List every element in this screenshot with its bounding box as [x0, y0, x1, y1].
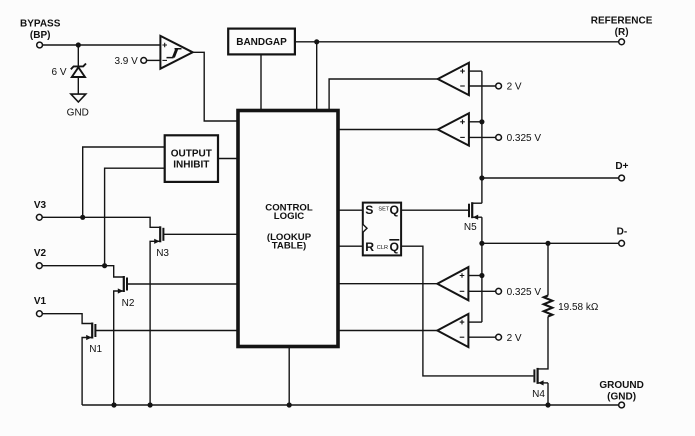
wire D+ line: [482, 177, 619, 179]
wire resistor to N4 drain: [538, 317, 548, 369]
wire junction to control logic top: [316, 42, 318, 111]
junction N2 source/bus: [111, 402, 116, 407]
transistor N3: [150, 226, 169, 405]
wire V1 to N1 drain: [42, 314, 92, 324]
svg-text:N4: N4: [532, 389, 545, 400]
op-amp U3 comparator 2V top: [438, 63, 469, 95]
wire U5 + input to rail: [468, 275, 482, 277]
svg-text:D+: D+: [615, 161, 628, 172]
wire U4 + input to rail: [469, 121, 482, 123]
transistor N2: [114, 276, 135, 405]
terminal 0.325 V top: [496, 133, 542, 144]
svg-text:GND: GND: [67, 107, 89, 118]
wire V3 node to output inhibit: [83, 147, 165, 217]
svg-text:6 V: 6 V: [51, 67, 66, 78]
transistor N5: [464, 202, 482, 233]
wire output inhibit to control logic: [218, 158, 238, 160]
terminal REFERENCE (R): [591, 16, 653, 45]
svg-text:19.58 kΩ: 19.58 kΩ: [558, 302, 599, 313]
svg-text:3.9 V: 3.9 V: [114, 56, 138, 67]
ground symbol GND: [67, 94, 89, 118]
junction control logic/bus: [287, 402, 292, 407]
wire D- to resistor R1: [547, 243, 549, 295]
svg-text:OUTPUT: OUTPUT: [171, 148, 212, 159]
op-amp U6 comparator 2V bottom: [437, 314, 468, 347]
junction node reference/control: [314, 39, 319, 44]
svg-text:2 V: 2 V: [507, 82, 522, 93]
wire N5 source to D-: [481, 217, 483, 243]
junction node V2: [102, 263, 107, 268]
flip-flop U2 SR latch: [363, 203, 401, 256]
bandgap block: [228, 29, 295, 55]
svg-text:Q: Q: [390, 240, 399, 254]
svg-text:REFERENCE: REFERENCE: [591, 16, 653, 27]
wire bandgap bottom to control logic: [260, 54, 262, 110]
junction N4/bus: [545, 402, 550, 407]
junction U5 +/rail: [479, 273, 484, 278]
ground bus wire: [82, 404, 619, 406]
svg-text:N5: N5: [464, 222, 477, 233]
wire sense rail lower: [481, 243, 483, 322]
wire N1 gate to control logic: [95, 330, 238, 332]
svg-text:INHIBIT: INHIBIT: [173, 159, 209, 170]
svg-text:(R): (R): [615, 27, 629, 38]
wire D- line: [482, 242, 619, 244]
wire 3.9V to U1 - input: [147, 59, 161, 61]
junction N3 source/bus: [148, 402, 153, 407]
wire U3 + input to rail: [469, 70, 482, 72]
wire bandgap to REFERENCE: [295, 41, 619, 43]
terminal V3: [34, 200, 47, 220]
wire BYPASS to U1 + input: [43, 44, 161, 46]
svg-text:(GND): (GND): [607, 392, 636, 403]
op-amp U4 comparator 0.325V top: [438, 113, 469, 145]
wire U3 - input to 2V: [469, 85, 496, 87]
wire V2 to N2 drain: [42, 266, 124, 277]
wire U6 + input to rail: [468, 321, 482, 323]
transistor N1: [82, 323, 102, 406]
terminal 2 V top: [496, 82, 522, 93]
terminal D-: [617, 226, 628, 246]
svg-text:GROUND: GROUND: [599, 380, 643, 391]
svg-text:Q: Q: [390, 203, 399, 217]
junction node BP/zener: [76, 42, 81, 47]
svg-text:N2: N2: [122, 298, 135, 309]
wire V3 to N3 drain: [42, 217, 160, 227]
wire N4 source to bus: [547, 383, 549, 405]
terminal D+: [615, 161, 628, 181]
svg-text:TABLE): TABLE): [272, 241, 306, 252]
wire V2 node to output inhibit: [105, 168, 165, 266]
terminal GROUND (GND): [599, 380, 643, 408]
junction D-/resistor: [545, 241, 550, 246]
control logic block: [238, 111, 338, 347]
wire zener anode to ground: [77, 77, 79, 94]
wire N3 gate to control logic: [163, 233, 238, 235]
zener diode D1: [71, 64, 86, 78]
output inhibit block: [165, 135, 218, 182]
junction node V3: [80, 215, 85, 220]
wire U6 output to control logic: [338, 330, 437, 332]
wire junction to zener cathode: [77, 45, 79, 66]
terminal V1: [34, 296, 47, 316]
svg-text:R: R: [365, 240, 374, 254]
op-amp U1 schmitt comparator: [160, 36, 192, 69]
svg-text:CLR: CLR: [377, 245, 388, 251]
resistor R1 19.58k: [544, 296, 599, 317]
terminal 2 V bottom: [496, 333, 522, 344]
op-amp U5 comparator 0.325V bottom: [437, 267, 468, 300]
wire U1 output to control logic: [193, 52, 238, 121]
wire U5 output to control logic: [338, 283, 437, 285]
svg-text:V1: V1: [34, 296, 47, 307]
wire control logic to S input: [338, 209, 363, 211]
svg-text:0.325 V: 0.325 V: [507, 287, 542, 298]
wire control logic bottom to bus: [288, 347, 290, 406]
terminal V2: [34, 248, 47, 268]
terminal 3.9 V: [114, 56, 146, 67]
svg-text:SET: SET: [378, 206, 389, 212]
svg-text:LOGIC: LOGIC: [274, 211, 304, 222]
svg-text:S: S: [365, 203, 373, 217]
wire U4 output to control logic: [338, 129, 438, 131]
svg-text:V3: V3: [34, 200, 47, 211]
junction D-/rail: [479, 241, 484, 246]
terminal BYPASS (BP): [20, 19, 61, 48]
wire Q to N5 gate: [401, 209, 468, 211]
wire U6 - input to 2V: [468, 336, 495, 338]
wire U5 - input to 0.325V: [468, 290, 495, 292]
wire U3 output to control logic top: [329, 79, 438, 111]
svg-text:(BP): (BP): [30, 30, 51, 41]
svg-text:N3: N3: [156, 248, 169, 259]
svg-text:2 V: 2 V: [507, 333, 522, 344]
svg-text:D-: D-: [617, 226, 628, 237]
svg-text:0.325 V: 0.325 V: [507, 133, 542, 144]
transistor N4: [532, 368, 548, 400]
junction D+/rail: [479, 175, 484, 180]
terminal 0.325 V bottom: [496, 287, 542, 298]
wire sense rail upper: [481, 71, 483, 203]
wire Qbar to N4 gate: [401, 246, 533, 376]
junction U4 +/rail: [479, 119, 484, 124]
svg-text:N1: N1: [89, 344, 102, 355]
svg-text:BYPASS: BYPASS: [20, 19, 61, 30]
wire control logic to R input: [338, 245, 363, 247]
svg-text:V2: V2: [34, 248, 47, 259]
wire N2 gate to control logic: [127, 283, 238, 285]
svg-text:BANDGAP: BANDGAP: [236, 37, 287, 48]
wire U4 - input to 0.325V: [469, 136, 496, 138]
